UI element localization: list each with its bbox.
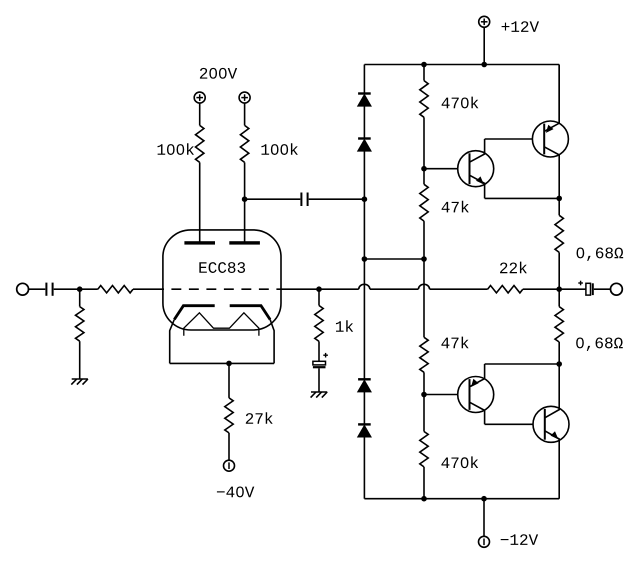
transistor Q1 collector [470, 139, 485, 162]
label 470k lower [441, 457, 449, 468]
wire R4 to right anode [244, 162, 246, 241]
wire -12V terminal [483, 499, 485, 537]
capacitor C2 coupling [300, 193, 302, 207]
wire anode junction to C2 [245, 198, 301, 200]
wire right cathode lead [270, 320, 274, 364]
capacitor C1 input coupling [45, 283, 47, 296]
terminal -12V [479, 536, 490, 547]
capacitor C3 electrolytic plus sign [323, 354, 328, 356]
resistor R2 grid stopper [98, 286, 133, 293]
wire node B to R6 [318, 289, 320, 305]
terminal -40V [224, 460, 235, 471]
wire R8 to cross junction [423, 221, 425, 259]
wire Q3 collector to Q4 base [485, 423, 533, 425]
label 47k upper [442, 202, 450, 213]
node divider cross junction [421, 256, 427, 262]
wire top rail [364, 64, 559, 66]
wire R5 to -40V terminal [228, 433, 230, 460]
resistor R4 100k right anode load [240, 125, 248, 162]
label -12V [501, 539, 509, 540]
diode D4 [358, 423, 371, 425]
wire to R12 [430, 288, 488, 290]
wire Q1 emitter to node E [485, 197, 560, 199]
transistor Q2 emitter [544, 65, 559, 132]
label 470k upper [442, 98, 450, 109]
wire tube to node B [281, 288, 359, 290]
diode D1 [358, 92, 371, 94]
terminal +12V [479, 16, 490, 27]
wire D4 to bottom rail [363, 437, 365, 499]
node B junction 1k tap [316, 286, 322, 292]
wire node A down [79, 289, 81, 306]
capacitor C4 plus sign [578, 282, 583, 284]
terminal +200V right [239, 92, 250, 103]
wire node A to R2 [80, 288, 98, 290]
wire diode column top [363, 65, 365, 94]
wire left terminal to R3 [199, 103, 201, 125]
resistor R5 27k [225, 398, 233, 433]
wire D2 to cap junction [363, 151, 365, 199]
transistor Q4 emitter [545, 431, 559, 499]
label 0,68 ohm lower [576, 337, 584, 348]
node F junction [556, 361, 562, 367]
wire cathode to R5 [228, 363, 230, 398]
wire output node to R14 [558, 289, 560, 306]
wire R14 to node F [558, 342, 560, 364]
node top rail divider junction [421, 62, 427, 68]
transistor Q3 collector [470, 402, 485, 424]
wire R7 to node C [423, 117, 425, 168]
wire D1 to D2 [363, 106, 365, 138]
node A junction [77, 286, 83, 292]
ground GND2 [311, 391, 327, 393]
terminal +200V left [194, 92, 205, 103]
tube V1 right anode plate [229, 241, 260, 244]
label 27k [246, 413, 253, 424]
wire top rail right corner [558, 65, 560, 124]
node E junction [556, 196, 562, 202]
label 47k lower [441, 338, 449, 349]
node right anode junction [242, 196, 248, 202]
wire divider mid [423, 259, 425, 337]
node top rail supply junction [481, 62, 487, 68]
wire hop over divider column [418, 284, 429, 289]
tube V1 grid dashed line [164, 288, 281, 290]
resistor R9 47k lower [420, 337, 428, 372]
transistor Q1 emitter [470, 175, 485, 198]
transistor Q4 collector [545, 364, 559, 418]
resistor R14 0.68 ohm lower [555, 307, 563, 342]
wire output node to C4 [559, 288, 586, 290]
node D junction [421, 392, 427, 398]
capacitor C4 electrolytic [586, 283, 591, 295]
node diode column cross junction [362, 256, 368, 262]
resistor R3 100k left anode load [196, 125, 204, 162]
wire between hops [370, 288, 419, 290]
node output junction [556, 286, 562, 292]
resistor R7 470k upper [420, 81, 428, 118]
wire Q1 collector to Q2 base [485, 138, 533, 140]
wire rail to R7 [423, 65, 425, 81]
node diode column cap junction [362, 196, 368, 202]
input terminal J1 [17, 283, 29, 295]
tube V1 heater filament [184, 313, 259, 336]
wire left cathode lead [170, 320, 175, 364]
capacitor C3 electrolytic [313, 361, 326, 365]
resistor R8 47k upper [420, 184, 428, 221]
resistor R1 grid leak [76, 307, 84, 342]
wire R2 to tube [133, 288, 164, 290]
wire cross connect [364, 258, 424, 260]
transistor Q3 PNP driver [458, 377, 494, 413]
wire R6 to C3 [318, 341, 320, 361]
wire C2 to diode column [309, 198, 365, 200]
wire C3 to ground [318, 368, 320, 392]
wire hop over diode column [359, 284, 370, 289]
node bottom rail divider junction [421, 496, 427, 502]
label 0,68 ohm upper [577, 247, 585, 258]
label ECC83 [199, 262, 206, 273]
ground GND1 [72, 378, 88, 380]
wire R12 to output node [523, 288, 559, 290]
wire bottom rail [364, 498, 559, 500]
diode D3 [358, 378, 371, 380]
transistor Q2 collector [544, 147, 559, 199]
resistor R12 22k [488, 286, 523, 293]
transistor Q2 PNP output [532, 121, 568, 157]
diode D2 [358, 137, 371, 139]
wire D3 to D4 [363, 392, 365, 425]
node C junction [421, 166, 427, 172]
transistor Q3 emitter [470, 364, 485, 387]
label 22k [500, 262, 507, 273]
tube V1 envelope [163, 230, 281, 330]
wire C4 to J2 [594, 288, 611, 290]
wire cathode bus [170, 362, 274, 364]
transistor Q1 NPN driver [458, 151, 494, 187]
wire R9 to node D [423, 372, 425, 394]
wire R1 to ground [79, 341, 81, 379]
resistor R13 0.68 ohm upper [555, 215, 563, 252]
output terminal J2 [611, 283, 623, 295]
tube V1 right cathode [230, 306, 270, 320]
node cathode junction [226, 361, 232, 367]
wire cap junction to cross wire [363, 199, 365, 259]
wire Q1 base [424, 168, 458, 170]
wire right terminal to R4 [244, 103, 246, 125]
tube V1 left anode plate [184, 241, 215, 244]
wire +12V terminal [483, 27, 485, 64]
wire Q3 base [424, 394, 458, 396]
resistor R6 1k [315, 306, 323, 342]
wire node E to R13 [558, 198, 560, 215]
wire Q3 emitter to node F [485, 363, 560, 365]
wire R10 to bottom rail [423, 467, 425, 499]
label 100k right [261, 144, 269, 155]
tube V1 left cathode [174, 306, 214, 320]
wire R3 to left anode [199, 162, 201, 241]
label 200V [200, 68, 207, 79]
wire R13 to output node [558, 252, 560, 289]
node bottom rail supply junction [481, 496, 487, 502]
label 1k [336, 321, 344, 332]
label +12V [502, 23, 510, 31]
transistor Q4 NPN output [533, 406, 569, 442]
wire node D to R10 [423, 395, 425, 432]
resistor R10 470k lower [420, 432, 428, 467]
wire C1 to node A [54, 288, 80, 290]
label 100k left [158, 144, 166, 155]
wire diode column mid [363, 259, 365, 379]
wire J1 to C1 [29, 288, 46, 290]
wire node C to R8 [423, 169, 425, 185]
label -40V [217, 491, 225, 492]
